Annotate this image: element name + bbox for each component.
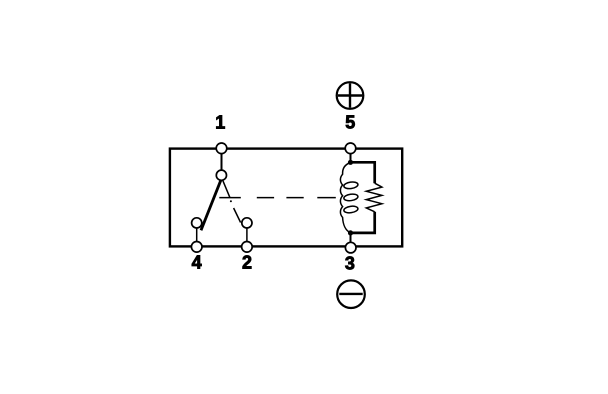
junction dot top (coil/resistor/pin5) [348, 160, 353, 165]
wire: coil bottom junction to terminal 3 [350, 233, 352, 247]
switch arm (movable contact) [201, 180, 221, 230]
svg-text:5: 5 [345, 112, 355, 132]
wire: resistor branch bottom [351, 212, 375, 233]
svg-text:1: 1 [215, 112, 225, 132]
wire: contact 2 to terminal 2 [246, 229, 248, 242]
coil L backbone [340, 163, 350, 233]
wire: terminal 1 to switch pivot [221, 148, 223, 175]
wire: resistor branch top [351, 162, 375, 183]
wire: contact 4 to terminal 4 [196, 229, 198, 242]
coil loop 1 [343, 181, 358, 189]
wire: terminal 5 stub to coil top junction [350, 148, 352, 162]
relay case outline [170, 149, 402, 247]
dash-dot link dot [230, 200, 232, 202]
coil loop 3 [343, 205, 358, 213]
battery positive symbol [337, 82, 364, 109]
battery negative symbol [337, 280, 365, 308]
terminal 3 [345, 242, 356, 253]
switch pivot node [216, 170, 226, 180]
coil loop 2 [343, 193, 358, 201]
terminal 2 [242, 242, 253, 253]
resistor R (zigzag) [366, 183, 382, 212]
junction dot bottom (coil/resistor/pin3) [348, 230, 353, 235]
terminal 5 [345, 143, 356, 154]
svg-text:2: 2 [242, 253, 252, 273]
contact node 2 [242, 218, 252, 228]
svg-text:3: 3 [345, 254, 355, 274]
svg-text:4: 4 [192, 253, 202, 273]
dashed actuation link (horizontal) [219, 197, 335, 199]
dash-dot link pivot to contact 2 [222, 179, 240, 222]
terminal 4 [191, 242, 202, 253]
terminal 1 [216, 143, 227, 154]
contact node 4 [192, 218, 202, 228]
